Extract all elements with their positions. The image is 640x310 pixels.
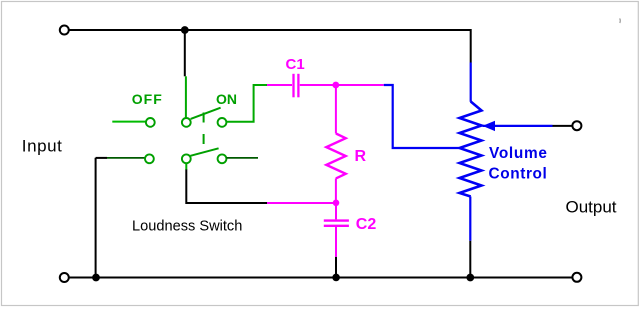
wire: input branch down the left xyxy=(95,158,97,278)
switch S1 lower pole left contact xyxy=(145,154,154,163)
output terminal T3 (top-right) xyxy=(572,121,581,130)
potentiometer VR1 zigzag xyxy=(460,102,482,197)
capacitor C2 top lead xyxy=(335,203,337,219)
switch S1 upper pole ON contact xyxy=(218,118,227,127)
switch S1 upper blade xyxy=(191,108,221,119)
output terminal T4 (bottom-right) xyxy=(572,273,581,282)
wire: black L from lower common to loudness tap xyxy=(186,170,267,204)
wire: magenta C1 right plate to node xyxy=(300,84,336,86)
node: bottom rail junction left xyxy=(92,274,100,282)
switch S1 upper pole OFF contact xyxy=(146,118,155,127)
capacitor C1 plates xyxy=(292,74,294,98)
resistor R zigzag xyxy=(326,134,345,179)
node: bottom rail junction middle xyxy=(332,274,340,282)
wire: OFF stub (upper pole) xyxy=(112,121,145,123)
switch S1 linkage (dashed) xyxy=(203,113,205,153)
node: magenta junction C1/R xyxy=(332,82,339,89)
potentiometer wiper arrow xyxy=(483,125,553,127)
node: bottom rail junction right xyxy=(466,274,474,282)
svg-text:Output: Output xyxy=(566,197,617,216)
resistor R bottom lead xyxy=(335,178,337,203)
wire: black drop from top rail toward switch xyxy=(184,30,186,76)
capacitor C2 plates xyxy=(324,219,349,221)
wire: blue from magenta to pot tap xyxy=(384,85,459,148)
wire: pot top lead (black then blue) xyxy=(470,63,472,102)
wire: wiper to output terminal (black) xyxy=(553,125,573,127)
input terminal T2 (bottom-left) xyxy=(60,273,69,282)
potentiometer VR1 bottom lead (blue then black) xyxy=(469,197,471,241)
wire: magenta into C1 left plate xyxy=(267,84,292,86)
svg-text:ON: ON xyxy=(216,91,237,107)
wire: lower pole right stub (dark green) xyxy=(226,157,258,159)
wire: bottom rail xyxy=(69,277,573,279)
switch S1 upper pole common contact xyxy=(182,118,191,127)
svg-text:C1: C1 xyxy=(286,56,305,73)
stray gray mark xyxy=(619,19,622,24)
wire: top rail from T1 to pot corner xyxy=(69,30,471,63)
wire: magenta from node toward blue xyxy=(336,84,384,86)
svg-text:Loudness Switch: Loudness Switch xyxy=(132,218,242,234)
svg-text:Control: Control xyxy=(489,165,548,182)
wire: green stub below lower common xyxy=(185,163,187,170)
svg-text:OFF: OFF xyxy=(132,91,163,107)
wire: green drop into switch common (upper pole) xyxy=(185,76,187,117)
svg-text:Volume: Volume xyxy=(489,145,548,162)
resistor R lead from node xyxy=(335,85,337,134)
svg-text:Input: Input xyxy=(22,136,63,155)
switch S1 lower pole right contact xyxy=(218,154,227,163)
input terminal T1 (top-left) xyxy=(60,26,69,35)
switch S1 lower pole common contact xyxy=(182,154,191,163)
wire: lower-left stub to switch (black then dark green) xyxy=(96,157,107,159)
node: junction dot on top rail xyxy=(181,26,189,34)
node: magenta junction R/C2 xyxy=(333,200,340,207)
capacitor C2 bottom lead (magenta then black) xyxy=(335,227,337,257)
wire: magenta from black L to R/C2 node xyxy=(267,202,336,204)
wire: green from ON contact up to C1 xyxy=(226,85,267,122)
svg-text:C2: C2 xyxy=(356,216,377,233)
switch S1 lower blade xyxy=(190,148,218,156)
svg-text:R: R xyxy=(355,148,367,165)
